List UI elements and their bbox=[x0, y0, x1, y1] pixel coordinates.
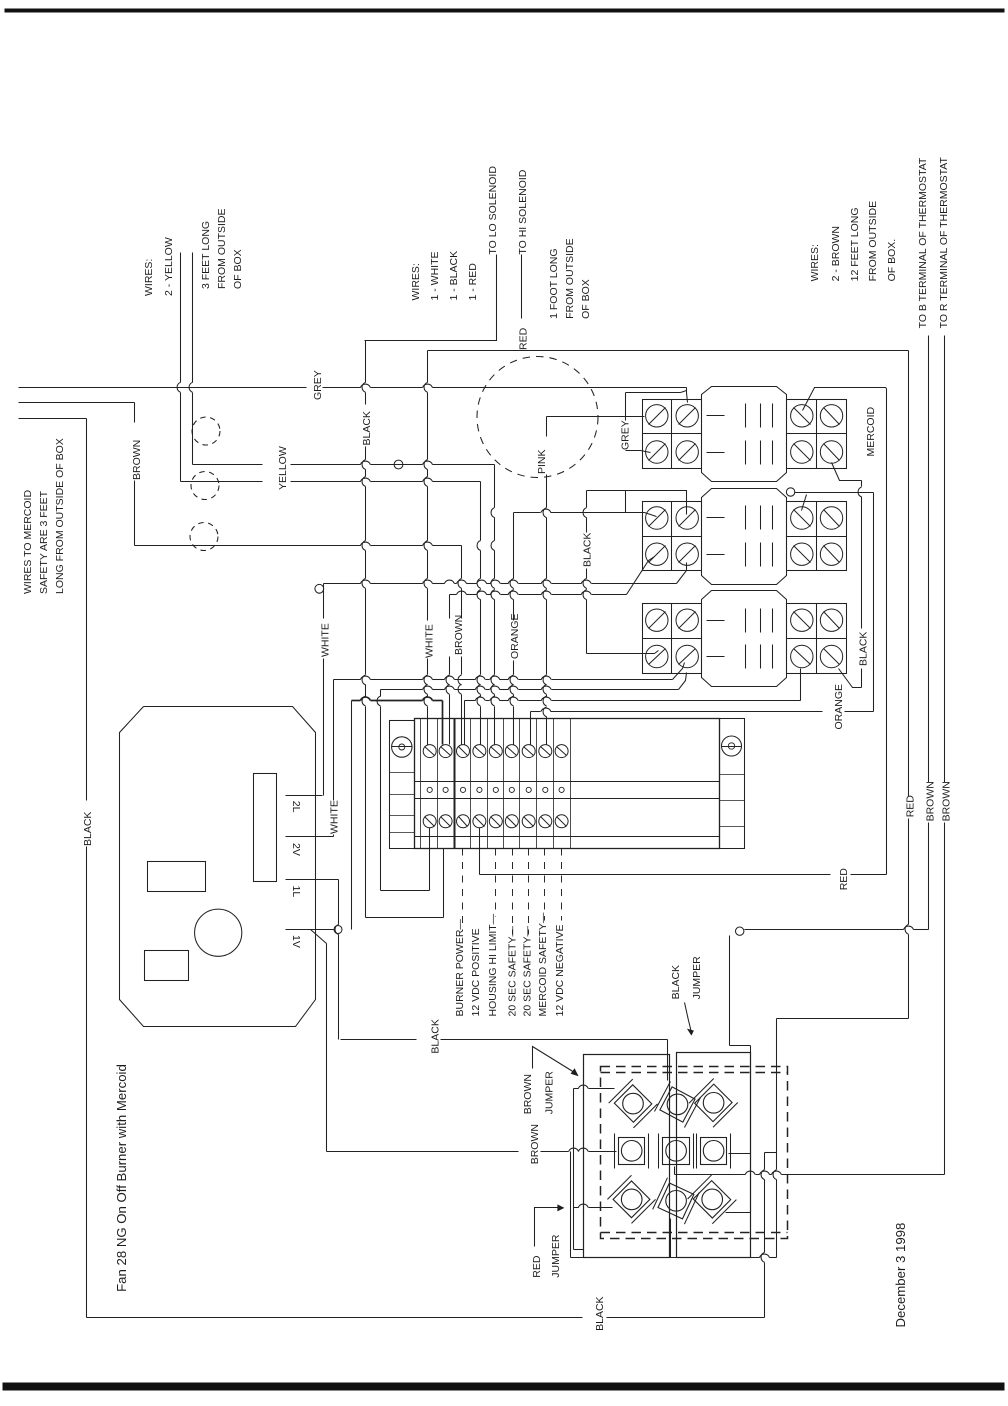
svg-text:BROWN: BROWN bbox=[925, 781, 937, 821]
svg-text:PINK: PINK bbox=[536, 449, 548, 474]
dashed lead x462.0 bbox=[462, 849, 464, 931]
svg-text:OF BOX: OF BOX bbox=[232, 249, 244, 289]
wire red horizontal to strip 4 bbox=[480, 874, 831, 876]
knockout hole 3 bbox=[190, 523, 218, 551]
svg-text:FROM OUTSIDE: FROM OUTSIDE bbox=[564, 238, 576, 319]
dashed lead x529.0 bbox=[528, 849, 530, 935]
svg-text:2 - YELLOW: 2 - YELLOW bbox=[163, 237, 175, 296]
junction circle K2 bbox=[786, 488, 794, 496]
module slot bbox=[254, 774, 277, 882]
wire strip1-bottom to K3 bbox=[380, 690, 382, 697]
svg-text:BLACK: BLACK bbox=[361, 411, 373, 445]
svg-text:2L: 2L bbox=[290, 801, 302, 813]
wire brown bus (K2 to strip2) bbox=[627, 557, 655, 595]
wire yellow drop to strip5 bbox=[494, 465, 496, 508]
svg-text:1V: 1V bbox=[290, 935, 302, 948]
wire yellow run lower bbox=[181, 481, 263, 483]
svg-text:WIRES TO MERCOID: WIRES TO MERCOID bbox=[22, 490, 34, 594]
wire yellow run upper bbox=[193, 464, 263, 466]
svg-text:JUMPER: JUMPER bbox=[544, 1071, 556, 1115]
relay K2 (middle) bbox=[643, 502, 702, 571]
wire strip3 to K3 right bbox=[464, 701, 466, 745]
svg-text:1L: 1L bbox=[290, 886, 302, 898]
svg-text:MERCOID: MERCOID bbox=[865, 407, 877, 457]
svg-text:1 - WHITE: 1 - WHITE bbox=[429, 252, 441, 301]
wire white bus bbox=[324, 583, 361, 585]
terminal L1 bbox=[286, 879, 339, 881]
wire brown down to strip3 bbox=[461, 546, 463, 579]
wire brown down bbox=[134, 403, 136, 423]
svg-text:RED: RED bbox=[838, 868, 850, 891]
svg-text:TO HI SOLENOID: TO HI SOLENOID bbox=[517, 169, 529, 254]
pilot dashed enclosure bbox=[601, 1067, 788, 1239]
wire red jumper inner bbox=[670, 1219, 672, 1258]
module circle bbox=[195, 909, 242, 956]
wire yellow entry 1 (left) bbox=[180, 253, 182, 383]
wire red jumper bbox=[570, 1152, 572, 1258]
wire brown V1 run bbox=[327, 1151, 519, 1153]
svg-text:BROWN: BROWN bbox=[522, 1074, 534, 1114]
junction circle V1 bbox=[334, 926, 342, 934]
svg-text:20 SEC SAFETY—: 20 SEC SAFETY— bbox=[507, 926, 519, 1017]
igniter C1 bbox=[607, 1175, 655, 1223]
wire grey jumper on K1 bbox=[626, 392, 681, 394]
terminal V2 bbox=[286, 836, 334, 838]
igniter B3 bbox=[697, 1134, 731, 1169]
svg-text:BLACK: BLACK bbox=[594, 1296, 606, 1330]
svg-text:WHITE: WHITE bbox=[320, 623, 332, 657]
svg-text:2 - BROWN: 2 - BROWN bbox=[830, 226, 842, 281]
dashed lead x544.2 bbox=[544, 849, 546, 921]
svg-text:BURNER POWER—: BURNER POWER— bbox=[454, 919, 466, 1017]
wire mercoid-safety entry bbox=[19, 418, 87, 420]
wire black long vertical bbox=[365, 341, 367, 383]
wire V2 to K3 bbox=[333, 680, 335, 801]
svg-text:BLACK: BLACK bbox=[430, 1019, 442, 1053]
wire to HI solenoid (red) bbox=[521, 255, 523, 319]
wire orange vertical (strip6) bbox=[513, 513, 515, 579]
svg-text:BROWN: BROWN bbox=[453, 615, 465, 655]
pilot solid box right bbox=[677, 1053, 751, 1258]
terminal L2 bbox=[286, 795, 323, 797]
svg-text:MERCOID SAFETY—: MERCOID SAFETY— bbox=[537, 912, 549, 1016]
svg-text:BROWN: BROWN bbox=[131, 440, 143, 480]
module rect lower bbox=[145, 951, 189, 981]
svg-text:12 FEET LONG: 12 FEET LONG bbox=[849, 207, 861, 281]
wire bottom black bbox=[764, 1153, 766, 1170]
igniter A3 bbox=[689, 1078, 738, 1127]
wire pilot up-left vertical bbox=[729, 936, 731, 1046]
wire black bottom U to terminal 2 bbox=[366, 917, 444, 919]
svg-text:2V: 2V bbox=[290, 843, 302, 856]
svg-text:WIRES:: WIRES: bbox=[809, 244, 821, 281]
svg-text:FROM OUTSIDE: FROM OUTSIDE bbox=[867, 201, 879, 282]
svg-text:OF BOX.: OF BOX. bbox=[886, 239, 898, 282]
wire yellow entry 2 (right) bbox=[192, 253, 194, 383]
svg-text:BLACK: BLACK bbox=[858, 632, 870, 666]
wire red long right vertical bbox=[908, 351, 910, 797]
svg-text:JUMPER: JUMPER bbox=[691, 956, 703, 1000]
igniter B1 bbox=[615, 1134, 649, 1169]
svg-text:BROWN: BROWN bbox=[941, 781, 953, 821]
svg-text:WHITE: WHITE bbox=[424, 624, 436, 658]
svg-text:3 FEET LONG: 3 FEET LONG bbox=[200, 221, 212, 289]
wire junction to brown B bbox=[745, 929, 904, 931]
wire red K1 to strip4 bbox=[803, 388, 887, 411]
junction circle on yellow bbox=[394, 460, 403, 469]
wire brown to right bbox=[135, 545, 361, 547]
ignition module box bbox=[120, 707, 316, 1027]
wire brown R down-left bbox=[675, 1174, 746, 1176]
svg-text:Fan 28 NG On Off Burner with M: Fan 28 NG On Off Burner with Mercoid bbox=[114, 1064, 129, 1292]
igniter A1 bbox=[609, 1079, 658, 1128]
svg-text:1 FOOT LONG: 1 FOOT LONG bbox=[548, 248, 560, 318]
wire L1 down (black) bbox=[338, 880, 340, 925]
dashed circle (cable bundle) bbox=[477, 357, 598, 478]
svg-text:12 VDC NEGATIVE: 12 VDC NEGATIVE bbox=[554, 925, 566, 1017]
igniter B2 bbox=[659, 1134, 694, 1169]
relay K3 (bottom) bbox=[643, 604, 702, 674]
svg-text:GREY: GREY bbox=[620, 420, 632, 450]
wire V1 to strip2 (bold) bbox=[351, 701, 353, 930]
junction circle white bbox=[315, 584, 324, 593]
wire brown jumper bbox=[573, 1089, 575, 1250]
wire pink bbox=[547, 416, 645, 418]
dashed lead x561.7 bbox=[561, 849, 563, 921]
svg-text:WIRES:: WIRES: bbox=[410, 263, 422, 300]
svg-text:OF BOX: OF BOX bbox=[580, 279, 592, 319]
svg-text:FROM OUTSIDE: FROM OUTSIDE bbox=[216, 209, 228, 290]
wire yellow drop to strip4 bbox=[480, 482, 482, 541]
bottom footer bar bbox=[3, 1383, 1005, 1391]
igniter C3 bbox=[688, 1175, 737, 1224]
svg-text:1 - BLACK: 1 - BLACK bbox=[448, 251, 460, 301]
wire white vertical to terminal 1 bbox=[427, 351, 429, 383]
svg-text:LONG FROM OUTSIDE OF BOX: LONG FROM OUTSIDE OF BOX bbox=[54, 438, 66, 594]
wire grey horizontal bbox=[19, 387, 307, 389]
svg-text:1 - RED: 1 - RED bbox=[467, 263, 479, 301]
svg-text:ORANGE: ORANGE bbox=[509, 613, 521, 659]
wire K2 jumper link bbox=[625, 491, 627, 513]
igniter C2 bbox=[653, 1178, 700, 1225]
wire orange strip7 to K2 bbox=[530, 712, 532, 745]
svg-text:BROWN: BROWN bbox=[529, 1124, 541, 1164]
svg-text:RED: RED bbox=[518, 327, 530, 350]
svg-text:BLACK: BLACK bbox=[82, 812, 94, 846]
dashed lead x512.9 bbox=[512, 849, 514, 935]
svg-text:BLACK: BLACK bbox=[670, 965, 682, 999]
svg-text:TO B TERMINAL OF THERMOSTAT: TO B TERMINAL OF THERMOSTAT bbox=[917, 157, 929, 328]
wire brown thermostat R bbox=[944, 336, 946, 783]
wire brown thermostat B bbox=[928, 336, 930, 783]
wire white/red top horizontal bbox=[428, 350, 909, 352]
svg-text:12 VDC POSITIVE: 12 VDC POSITIVE bbox=[470, 928, 482, 1016]
dashed lead x495.8 bbox=[495, 849, 497, 917]
svg-text:20 SEC SAFETY—: 20 SEC SAFETY— bbox=[522, 926, 534, 1017]
svg-text:YELLOW: YELLOW bbox=[277, 446, 289, 490]
svg-text:SAFETY ARE 3 FEET: SAFETY ARE 3 FEET bbox=[38, 490, 50, 594]
wire black left vertical bbox=[86, 419, 88, 801]
knockout hole 1 bbox=[192, 417, 220, 445]
svg-text:BLACK: BLACK bbox=[582, 533, 594, 567]
strip left bracket bbox=[390, 721, 415, 849]
terminal strip TB1 bbox=[415, 719, 720, 849]
svg-text:WIRES:: WIRES: bbox=[143, 259, 155, 296]
svg-text:RED: RED bbox=[531, 1255, 543, 1278]
igniter A2 bbox=[654, 1081, 700, 1127]
terminal V1 bbox=[286, 929, 335, 931]
arrow red jumper bbox=[535, 1208, 561, 1247]
wire junction circle pilot bbox=[736, 927, 744, 935]
wire red down-left to pilot bbox=[777, 1018, 909, 1020]
knockout hole 2 bbox=[191, 472, 219, 500]
wire black L1 run bbox=[341, 1039, 417, 1041]
arrow brown jumper bbox=[533, 1047, 575, 1073]
svg-text:JUMPER: JUMPER bbox=[550, 1234, 562, 1278]
svg-text:ORANGE: ORANGE bbox=[833, 684, 845, 730]
svg-text:TO R TERMINAL OF THERMOSTAT: TO R TERMINAL OF THERMOSTAT bbox=[938, 156, 950, 328]
svg-text:TO LO SOLENOID: TO LO SOLENOID bbox=[487, 166, 499, 255]
wire black K1 right down bbox=[832, 463, 862, 481]
wire to LO solenoid (black) bbox=[365, 255, 497, 341]
svg-text:December 3 1998: December 3 1998 bbox=[893, 1223, 908, 1328]
wire brown entry bbox=[19, 402, 135, 404]
pilot solid box left bbox=[584, 1055, 670, 1258]
strip right cap bbox=[720, 719, 745, 849]
wire white drop to L2 bbox=[323, 584, 325, 619]
svg-text:HOUSING HI LIMIT—: HOUSING HI LIMIT— bbox=[487, 913, 499, 1016]
wire V1 down (brown) bbox=[311, 930, 327, 944]
svg-text:WHITE: WHITE bbox=[329, 800, 341, 834]
module rect upper bbox=[148, 862, 206, 892]
relay K1 (mercoid relay top) bbox=[643, 400, 702, 469]
wire black K2 jumper bbox=[587, 491, 687, 515]
wire grey drop to relay U1 bbox=[687, 388, 688, 403]
arrow black jumper bbox=[685, 1003, 692, 1033]
svg-text:GREY: GREY bbox=[312, 370, 324, 400]
svg-text:RED: RED bbox=[905, 795, 917, 818]
top header bar bbox=[5, 9, 1005, 13]
